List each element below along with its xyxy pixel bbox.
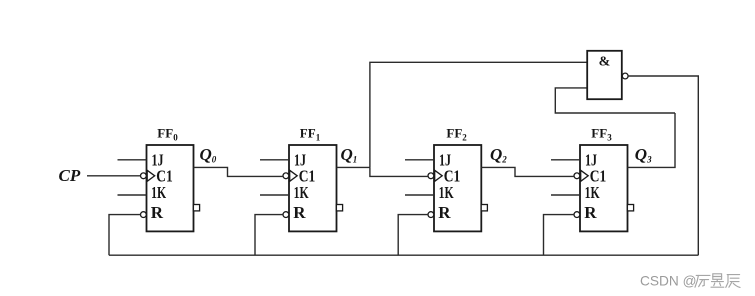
FF1 clock dynamic-input triangle xyxy=(290,170,298,181)
flip-flop FF2 body xyxy=(434,145,481,231)
wire: reset bus riser to FF0 R xyxy=(109,215,141,256)
FF2 clock dynamic-input triangle xyxy=(435,170,443,181)
wire: FF0 output Q0 to FF1 C1 (stepped) xyxy=(194,167,284,176)
FF3 inverted output open square xyxy=(627,205,633,211)
svg-text:&: & xyxy=(599,55,611,70)
FF1 clock pin C1 bubble (negative edge) xyxy=(283,173,289,179)
FF3 pin 1J stub wire xyxy=(551,159,580,161)
svg-text:R: R xyxy=(584,203,597,222)
FF0 pin 1J stub wire xyxy=(118,159,147,161)
wire: NAND output right then down xyxy=(628,76,698,255)
svg-text:1K: 1K xyxy=(294,183,310,202)
svg-text:Q3: Q3 xyxy=(635,145,652,165)
watermark glyph 2 (yu) xyxy=(711,274,724,287)
svg-text:FF1: FF1 xyxy=(300,126,321,143)
wire: Q3 across and up to NAND input 2 xyxy=(555,88,675,113)
flip-flop FF0 body xyxy=(147,145,194,231)
svg-text:FF2: FF2 xyxy=(446,126,467,143)
flip-flop FF1 body xyxy=(289,145,337,231)
wire: FF1 output Q1 to junction xyxy=(337,166,370,168)
wire: reset bus riser to FF3 R xyxy=(544,215,575,256)
svg-text:CSDN @: CSDN @ xyxy=(640,274,696,289)
FF3 pin 1K stub wire xyxy=(551,194,580,196)
NAND gate U1 body xyxy=(587,51,622,99)
FF0 clock dynamic-input triangle xyxy=(147,170,155,181)
FF3 pin R bubble (active low) xyxy=(574,212,580,218)
wire: reset bus riser to FF1 R xyxy=(255,215,283,256)
FF3 clock pin C1 bubble (negative edge) xyxy=(574,173,580,179)
FF2 pin 1K stub wire xyxy=(405,194,434,196)
watermark glyph 1 (li) xyxy=(695,275,710,287)
svg-text:FF0: FF0 xyxy=(157,126,178,143)
svg-text:Q1: Q1 xyxy=(341,145,358,165)
svg-text:R: R xyxy=(438,203,451,222)
svg-text:CP: CP xyxy=(59,166,81,185)
flip-flop FF3 body xyxy=(580,145,628,231)
svg-text:R: R xyxy=(151,203,164,222)
FF0 pin 1K stub wire xyxy=(118,194,147,196)
FF0 inverted output open square xyxy=(193,205,199,211)
svg-text:Q0: Q0 xyxy=(200,145,217,165)
FF1 pin 1K stub wire xyxy=(260,194,289,196)
wire: FF3 output Q3 right then up xyxy=(628,113,676,167)
wire: reset bus riser to FF2 R xyxy=(398,215,428,256)
FF2 inverted output open square xyxy=(481,205,487,211)
FF1 inverted output open square xyxy=(336,205,342,211)
svg-text:1K: 1K xyxy=(439,183,455,202)
svg-text:1K: 1K xyxy=(585,183,601,202)
svg-text:1K: 1K xyxy=(151,183,167,202)
svg-text:FF3: FF3 xyxy=(591,126,612,143)
svg-text:R: R xyxy=(293,203,306,222)
wire: Q1 junction up to NAND input 1 xyxy=(370,62,587,167)
wire: common reset bus along bottom xyxy=(109,254,698,256)
svg-text:Q2: Q2 xyxy=(490,145,507,165)
wire: Q1 junction down-step to FF2 C1 xyxy=(370,167,428,176)
FF1 pin 1J stub wire xyxy=(260,159,289,161)
FF3 clock dynamic-input triangle xyxy=(581,170,589,181)
FF0 clock pin C1 bubble (negative edge) xyxy=(141,173,147,179)
wire: CP to FF0 C1 xyxy=(87,175,141,177)
FF2 clock pin C1 bubble (negative edge) xyxy=(428,173,434,179)
FF2 pin 1J stub wire xyxy=(405,159,434,161)
FF0 pin R bubble (active low) xyxy=(141,212,147,218)
wire: FF2 output Q2 to FF3 C1 (stepped) xyxy=(481,167,574,176)
FF2 pin R bubble (active low) xyxy=(428,212,434,218)
NAND gate U1 output bubble xyxy=(622,73,628,79)
watermark glyph 3 (chen) xyxy=(726,275,740,288)
FF1 pin R bubble (active low) xyxy=(283,212,289,218)
